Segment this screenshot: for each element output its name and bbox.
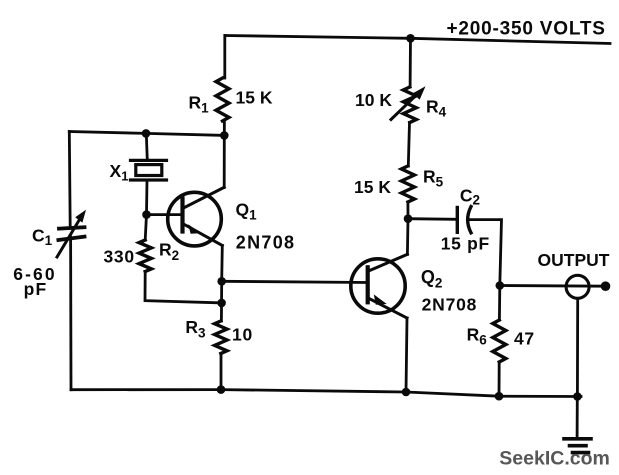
wire R4 top lead bbox=[409, 38, 412, 87]
svg-text:R5: R5 bbox=[423, 167, 444, 190]
svg-text:10 K: 10 K bbox=[355, 90, 392, 110]
wire R6 bottom lead bbox=[498, 362, 501, 396]
svg-text:R1: R1 bbox=[189, 93, 210, 116]
svg-text:10: 10 bbox=[232, 324, 253, 344]
node Q2 emitter bottom bbox=[402, 388, 411, 397]
wire Q2 collector vertical bbox=[406, 219, 409, 255]
wire emitter node to R3 bbox=[220, 281, 223, 321]
transistor Q2 bbox=[351, 254, 408, 318]
wire node line y=133 bbox=[69, 132, 224, 136]
resistor R3 bbox=[215, 321, 227, 354]
node output terminal dot bbox=[601, 281, 611, 291]
wire X1 top lead bbox=[146, 133, 147, 160]
node R6 bottom bbox=[495, 392, 504, 401]
node R5/C2/collector bbox=[404, 214, 413, 223]
svg-text:Q2: Q2 bbox=[421, 267, 443, 291]
wire R4-R5 link bbox=[408, 123, 409, 167]
wire R2 top lead bbox=[145, 215, 146, 240]
wire C2 left lead bbox=[408, 217, 456, 220]
wire output circle to ground rail bbox=[576, 299, 579, 397]
wire Q1 emitter vertical bbox=[220, 246, 223, 282]
resistor R6 bbox=[493, 320, 506, 362]
node X1 top bbox=[142, 129, 151, 138]
wire R2 bottom lead bbox=[145, 272, 222, 303]
node top rail junction bbox=[406, 34, 415, 43]
svg-text:R6: R6 bbox=[467, 324, 488, 347]
wire Q1 base lead bbox=[147, 213, 183, 216]
svg-text:R2: R2 bbox=[159, 240, 179, 264]
svg-text:X1: X1 bbox=[110, 161, 129, 184]
svg-text:+200-350 VOLTS: +200-350 VOLTS bbox=[447, 19, 606, 40]
svg-text:Q1: Q1 bbox=[236, 200, 258, 223]
crystal X1 bbox=[131, 160, 167, 180]
wire C2 right lead bbox=[468, 220, 502, 286]
wire top supply rail bbox=[225, 36, 610, 44]
wire R5 bottom lead bbox=[406, 202, 409, 219]
resistor R2 bbox=[139, 240, 151, 272]
capacitor C2 bbox=[457, 207, 471, 233]
wire Q1 collector vertical bbox=[223, 135, 226, 187]
wire R3 bottom lead bbox=[220, 354, 223, 390]
svg-text:2N708: 2N708 bbox=[422, 295, 478, 315]
wire bottom ground rail bbox=[71, 390, 581, 397]
wire R1 bottom lead bbox=[223, 121, 226, 135]
svg-text:330: 330 bbox=[104, 247, 135, 267]
wire output node to terminal bbox=[500, 284, 606, 288]
wire R6 top lead bbox=[498, 286, 501, 321]
svg-text:47: 47 bbox=[514, 329, 535, 349]
node R1 bottom / collector bbox=[220, 131, 229, 140]
ground bbox=[564, 439, 591, 453]
svg-text:15 pF: 15 pF bbox=[441, 233, 490, 253]
svg-text:SeekIC.com: SeekIC.com bbox=[499, 448, 610, 470]
terminal OUTPUT circle bbox=[566, 275, 589, 298]
node Q1 emitter bbox=[217, 277, 226, 286]
svg-text:R4: R4 bbox=[426, 97, 447, 120]
svg-text:15 K: 15 K bbox=[236, 87, 273, 107]
svg-text:pF: pF bbox=[24, 279, 48, 299]
node Q1 base bbox=[142, 210, 151, 219]
wire emitter to Q2 base bbox=[222, 281, 368, 282]
capacitor C1 bbox=[58, 227, 84, 240]
svg-text:R3: R3 bbox=[185, 317, 206, 341]
wire X1 bottom lead bbox=[145, 180, 148, 215]
svg-text:C2: C2 bbox=[460, 185, 480, 207]
wire R1 top lead bbox=[223, 36, 226, 79]
resistor R1 bbox=[216, 78, 229, 121]
node R2/R3 junction bbox=[217, 299, 226, 308]
node ground junction bbox=[573, 392, 582, 401]
wire Q2 emitter vertical bbox=[406, 318, 407, 392]
svg-text:C1: C1 bbox=[32, 226, 53, 249]
svg-text:OUTPUT: OUTPUT bbox=[538, 250, 610, 270]
svg-text:15 K: 15 K bbox=[354, 177, 391, 197]
node C2/R6/output bbox=[496, 281, 505, 290]
svg-text:2N708: 2N708 bbox=[236, 233, 296, 253]
wire ground stem bbox=[576, 397, 579, 438]
transistor Q1 bbox=[168, 187, 225, 246]
node R3 bottom bbox=[217, 385, 226, 394]
resistor R4 variable bbox=[403, 87, 416, 123]
resistor R5 bbox=[401, 166, 414, 202]
wire C1 branch lower bbox=[69, 237, 72, 390]
wire C1 branch upper bbox=[68, 132, 72, 228]
